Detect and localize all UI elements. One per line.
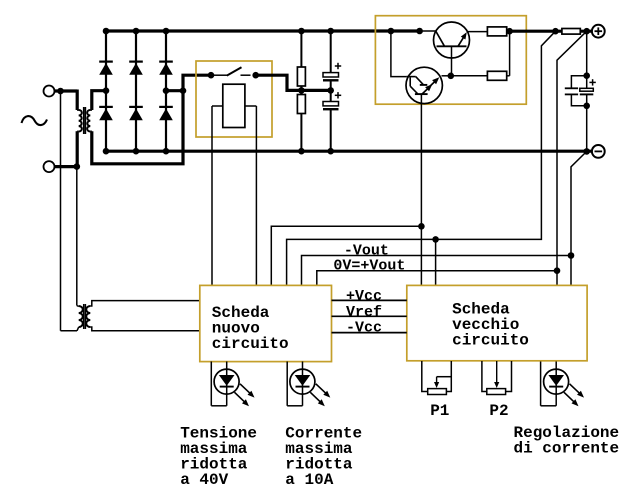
node: output cap top — [583, 72, 590, 79]
capacitor C2 (filter bottom, electrolytic) — [323, 90, 341, 151]
LED LD3 (Regolazione di corrente) — [541, 362, 584, 407]
wire: Q2 base lead down to vecchio board — [420, 94, 422, 285]
svg-text:P1: P1 — [430, 402, 449, 420]
node: bridge column 2 top — [133, 28, 140, 35]
wire: -Vout sense (B) from shunt right down — [557, 31, 587, 285]
node: C2 bottom on rail — [327, 148, 334, 155]
wire: top DC rail (thick) — [105, 29, 420, 32]
node: shunt right — [583, 28, 590, 35]
transformer TR2 (auxiliary) primary — [61, 91, 83, 331]
relay K1 enclosure — [196, 61, 272, 137]
transistor Q1 (pass transistor) — [420, 22, 488, 76]
node: bridge left mid — [103, 87, 110, 94]
node: C1 top on rail — [327, 28, 334, 35]
label Vref — [346, 304, 382, 321]
wire: secondary top to bridge left mid node — [92, 91, 107, 110]
svg-text:0V=+Vout: 0V=+Vout — [333, 258, 405, 275]
svg-text:circuito: circuito — [452, 332, 529, 350]
resistor R5 (current shunt) — [562, 29, 580, 35]
diode D5 (bridge lower, column 2) — [129, 107, 143, 120]
label -Vcc — [346, 320, 382, 337]
node: Q1 base / Q2 emitter junction — [448, 73, 455, 80]
wire: A branch vertical into vecchio board — [435, 239, 437, 285]
potentiometer P1 — [422, 361, 452, 395]
wire: 0V=+Vout line — [317, 271, 557, 286]
output terminal - — [592, 145, 605, 158]
label +Vcc — [346, 288, 382, 305]
svg-text:+Vcc: +Vcc — [346, 288, 382, 305]
output terminal + — [592, 25, 605, 38]
LED LD1 (Tensione massima ridotta) — [211, 362, 254, 407]
resistor R2 (bleeder bottom) — [297, 90, 305, 151]
transformer TR1 primary winding — [77, 110, 82, 132]
wire: Vref interconnect — [332, 315, 407, 317]
capacitor C1 (filter top, electrolytic) — [323, 31, 341, 90]
wire: R3/R4 junction vertical — [509, 31, 511, 76]
label P1 — [430, 402, 449, 420]
wire: rail to Q2 collector — [391, 31, 406, 77]
diode D4 (bridge lower, column 1) — [99, 107, 113, 120]
wire: -Vcc interconnect — [332, 332, 407, 334]
label -Vout — [344, 242, 389, 259]
diode D2 (bridge upper, column 2) — [129, 31, 143, 151]
svg-text:-Vcc: -Vcc — [346, 320, 382, 337]
terminal T2 (AC input bottom) — [44, 161, 55, 172]
svg-text:circuito: circuito — [212, 335, 289, 353]
wire: 0V sense (C) from minus rail down — [571, 151, 587, 285]
transformer TR1 secondary winding — [87, 110, 92, 132]
svg-text:a 40V: a 40V — [180, 471, 228, 489]
wire: output cap column — [586, 31, 588, 151]
caption: Tensione massima ridotta a 40V — [180, 425, 257, 489]
wire: branch to bridge right mid node — [164, 87, 186, 94]
diode D1 (bridge upper, column 1) — [99, 31, 113, 151]
resistor R4 (Q2 emitter resistor) — [451, 71, 510, 80]
transformer TR2 core — [84, 304, 86, 329]
caption: Corrente massima ridotta a 10A — [285, 425, 362, 489]
node: bridge right mid — [163, 87, 170, 94]
node: rail to Q1 collector — [416, 28, 423, 35]
svg-text:Vref: Vref — [346, 304, 382, 321]
regulator pass-transistor enclosure — [375, 16, 526, 105]
node: Q2 base drive tap — [418, 223, 425, 230]
transformer TR1 core — [84, 107, 86, 134]
capacitor C3 (output, film) — [565, 76, 587, 106]
potentiometer P2 — [482, 361, 512, 395]
label 0V=+Vout — [333, 258, 405, 275]
transformer TR2 secondary — [86, 301, 200, 331]
AC source symbol — [22, 116, 48, 125]
wire: relay switch output to filter midpoint (thick) — [256, 75, 332, 90]
wire: output rail to + terminal (thick) — [510, 30, 592, 33]
wire: T1 to transformer primary top — [54, 90, 77, 111]
svg-text:di corrente: di corrente — [514, 439, 620, 457]
node: minus rail / sense tap — [583, 148, 590, 155]
node: R3 output on rail — [506, 28, 513, 35]
wire: relay coil lead left — [212, 106, 223, 285]
node: R2 bottom on rail — [298, 148, 305, 155]
wire: relay coil lead right — [245, 106, 257, 285]
wire: -Vout line — [302, 256, 572, 286]
node: R divider mid — [298, 87, 305, 94]
wire: T2 to transformer primary bottom — [54, 131, 77, 168]
node: bridge column 3 top — [163, 28, 170, 35]
transistor Q2 (darlington driver) — [406, 67, 451, 103]
LED LD2 (Corrente massima ridotta) — [287, 362, 330, 407]
caption: Regolazione di corrente — [514, 424, 620, 458]
relay coil — [223, 84, 245, 127]
node: bridge column 1 top — [103, 28, 110, 35]
wire: secondary bottom to bridge AC feed (thick L path) — [92, 75, 212, 164]
capacitor C4 (output, electrolytic) — [580, 79, 596, 94]
resistor R3 (Q1 emitter resistor) — [487, 27, 509, 36]
node: bridge column 3 bottom — [163, 148, 170, 155]
node: output cap bottom — [583, 103, 590, 110]
board box: Scheda vecchio circuito — [407, 285, 587, 360]
relay switch contact — [208, 67, 259, 78]
diode D6 (bridge lower, column 3) — [159, 107, 173, 120]
terminal T1 (AC input top) — [44, 86, 55, 97]
node: bridge column 1 bottom — [103, 148, 110, 155]
resistor R1 (bleeder top) — [297, 31, 305, 90]
svg-text:a 10A: a 10A — [285, 471, 333, 489]
svg-text:P2: P2 — [489, 402, 508, 420]
node: bridge column 2 bottom — [133, 148, 140, 155]
node: A branch to vecchio — [432, 236, 439, 243]
node: AC sense tap bottom — [74, 163, 81, 170]
board box: Scheda nuovo circuito — [200, 285, 332, 361]
node: B to 0V line — [554, 267, 561, 274]
node: C to -Vout line — [568, 252, 575, 259]
wire: bottom DC rail (thick) — [105, 150, 592, 153]
wire: +Vcc interconnect — [332, 299, 407, 301]
node: rail tap to driver Q2 — [388, 28, 395, 35]
wire: +sense (A) from shunt left down to boards — [287, 31, 556, 285]
label P2 — [489, 402, 508, 420]
diode D3 (bridge upper, column 3) — [159, 31, 173, 151]
node: R1 top on rail — [298, 28, 305, 35]
wire: base drive line to nuovo board — [271, 226, 421, 285]
node: AC sense tap top — [57, 88, 64, 95]
node: shunt left — [552, 28, 559, 35]
node: C filter mid — [327, 87, 334, 94]
